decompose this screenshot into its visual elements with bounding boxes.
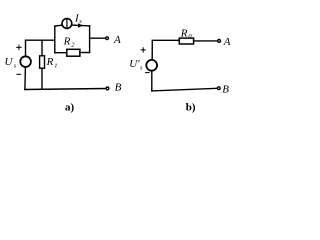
wire R1 branch top (41, 40, 43, 56)
svg-text:a): a) (65, 102, 75, 114)
svg-text:s: s (79, 18, 82, 25)
plus sign Us (17, 45, 21, 49)
svg-text:U: U (5, 56, 14, 68)
minus sign Us (17, 73, 21, 75)
wire bottom branch left segment (55, 52, 67, 54)
resistor R2 (67, 49, 80, 56)
svg-text:U′: U′ (129, 58, 140, 70)
wire bottom rail a (25, 89, 106, 90)
terminal A (b) (218, 40, 221, 43)
wire to terminal A (a) (90, 37, 105, 39)
terminal B (b) (217, 87, 220, 90)
svg-text:s: s (140, 65, 143, 72)
wire bottom rail b (152, 88, 217, 91)
wire top branch right segment (72, 24, 90, 27)
svg-text:R: R (46, 56, 54, 68)
svg-text:2: 2 (71, 41, 75, 48)
voltage source U' (146, 60, 157, 71)
svg-text:R: R (63, 36, 71, 48)
plus sign U' (141, 48, 145, 52)
resistor R1 (40, 56, 45, 68)
wire bottom branch right segment (80, 52, 90, 54)
wire box right edge (89, 26, 91, 53)
minus sign U' (146, 72, 150, 74)
svg-text:s: s (14, 62, 17, 69)
terminal A (a) (106, 37, 109, 40)
wire box left edge (54, 26, 56, 53)
svg-text:B: B (115, 82, 122, 94)
wire Us branch bottom (24, 67, 27, 89)
voltage source Us (20, 56, 31, 67)
svg-text:b): b) (186, 102, 196, 114)
svg-text:1: 1 (54, 62, 57, 69)
svg-text:A: A (223, 36, 231, 48)
svg-text:A: A (113, 34, 121, 46)
terminal B (a) (106, 87, 109, 90)
wire R1 branch bottom (41, 68, 43, 89)
svg-text:B: B (222, 84, 229, 96)
resistor R0 (179, 38, 193, 44)
wire top rail b right (194, 40, 218, 42)
svg-text:R: R (180, 27, 188, 39)
current source Is (62, 19, 72, 29)
wire Us branch top (25, 40, 27, 56)
wire bottom branch b (151, 71, 153, 91)
wire top rail b left (152, 40, 179, 60)
wire top branch left segment (55, 24, 62, 27)
wire main node a: Us/R1 junction to box left (26, 39, 55, 41)
arrow Is direction (78, 23, 83, 28)
